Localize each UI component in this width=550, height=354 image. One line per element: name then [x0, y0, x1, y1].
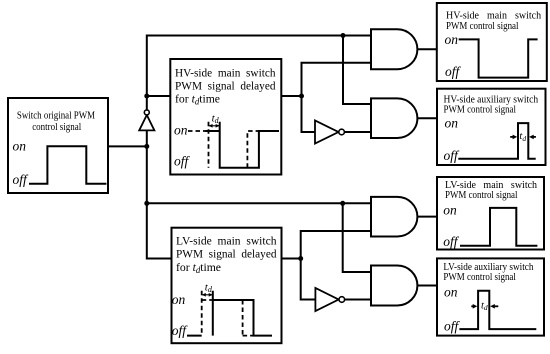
box: HV-side main switch PWM control signal: [437, 3, 547, 81]
box: LV-side main switch PWM control signal: [437, 177, 544, 250]
waveform: LV auxiliary narrow pulse: [459, 291, 536, 329]
wire: vertical trunk below inverter down to LV box: [147, 130, 172, 258]
svg-text:HV-side main switch: HV-side main switch: [175, 65, 276, 79]
box: HV-side main switch PWM signal delayed for td time: [170, 59, 281, 175]
svg-text:on: on: [445, 116, 459, 131]
waveform: original PWM pulse: [29, 146, 106, 184]
wire: AND2 output: [417, 117, 437, 119]
AND gate U7 (LV auxiliary): [371, 266, 417, 306]
box: LV-side auxiliary switch PWM control signal: [437, 258, 544, 335]
svg-text:PWM control signal: PWM control signal: [443, 272, 516, 283]
AND gate U6 (LV main): [371, 197, 417, 237]
wire: HV box output: [281, 95, 301, 97]
svg-text:on: on: [174, 122, 188, 137]
svg-text:on: on: [443, 203, 457, 218]
svg-text:td: td: [481, 301, 488, 313]
waveform: HV auxiliary narrow pulse: [458, 123, 535, 159]
dimension td with arrows: [202, 281, 213, 296]
wire: AND3 output: [417, 216, 437, 218]
waveform: LV main pulse: [460, 208, 537, 246]
inverter U1 (vertical NOT gate): [139, 110, 154, 130]
svg-text:off: off: [444, 319, 461, 334]
svg-text:PWM control signal: PWM control signal: [445, 190, 518, 201]
box: LV-side main switch PWM signal delayed for td time: [172, 228, 282, 344]
svg-text:on: on: [444, 285, 458, 300]
svg-text:LV-side main switch: LV-side main switch: [176, 234, 277, 248]
box: Switch original PWM control signal: [8, 98, 108, 193]
box: HV-side auxiliary switch PWM control signal: [437, 89, 546, 165]
wire: AND4 output: [417, 285, 437, 287]
svg-text:PWM signal delayed: PWM signal delayed: [176, 247, 277, 261]
wire: LV box output: [282, 258, 301, 260]
inverter U2 (NOT gate): [315, 121, 344, 144]
svg-text:off: off: [172, 323, 189, 338]
svg-text:PWM control signal: PWM control signal: [446, 21, 519, 32]
wire: HV vertical to inverter U2 input: [302, 96, 316, 132]
wire: LV rail to AND3: [147, 202, 371, 204]
svg-text:control signal: control signal: [32, 122, 81, 133]
waveform: solid delayed signal: [187, 291, 272, 336]
wire: AND1 output: [417, 48, 437, 50]
svg-text:off: off: [13, 172, 30, 187]
node: junction LV rail drop: [340, 201, 345, 206]
wire: vertical trunk above inverter to top rail: [147, 36, 371, 111]
node: junction top rail: [341, 33, 346, 38]
wire: U2 output to AND2 bottom input: [344, 131, 371, 133]
dimension td with arrows: [510, 131, 536, 143]
svg-text:off: off: [174, 154, 191, 169]
svg-text:on: on: [13, 139, 27, 154]
waveform: dashed complement signal: [188, 122, 259, 168]
AND gate U5 (HV auxiliary): [371, 98, 417, 138]
AND gate U4 (HV main): [371, 29, 417, 69]
node: junction HV output: [299, 94, 304, 99]
svg-text:PWM signal delayed: PWM signal delayed: [175, 78, 276, 92]
svg-text:Switch original PWM: Switch original PWM: [17, 111, 95, 122]
wire: left box output: [108, 145, 147, 147]
node: junction LV rail: [144, 201, 149, 206]
waveform: HV main: [459, 39, 538, 77]
svg-text:PWM control signal: PWM control signal: [444, 105, 517, 116]
node: junction LV output: [298, 256, 303, 261]
wire: LV vertical to inverter U3 input: [301, 259, 316, 300]
waveform: solid delayed complement: [206, 122, 280, 168]
inverter U3 (NOT gate): [315, 288, 344, 311]
node: junction at inverter input: [144, 144, 149, 149]
node: junction inverter output: [144, 94, 149, 99]
dimension td with arrows: [471, 301, 498, 313]
wire: drop from LV rail to AND4 top input: [343, 203, 371, 272]
dimension td with arrows: [209, 112, 220, 127]
svg-text:off: off: [443, 234, 460, 249]
wire: inverter output to HV delay box: [147, 95, 170, 97]
svg-text:on: on: [445, 32, 459, 47]
wire: U3 output to AND4 bottom input: [345, 299, 371, 301]
svg-text:off: off: [444, 148, 461, 163]
waveform: dashed original signal: [202, 291, 254, 336]
wire: drop from top rail to AND2 top input: [343, 36, 371, 105]
wire: HV vertical to AND1 bottom input: [302, 63, 372, 96]
svg-text:td: td: [519, 131, 526, 143]
wire: LV vertical to AND3 bottom input: [301, 231, 371, 259]
svg-text:off: off: [445, 64, 462, 79]
svg-text:on: on: [172, 292, 186, 307]
